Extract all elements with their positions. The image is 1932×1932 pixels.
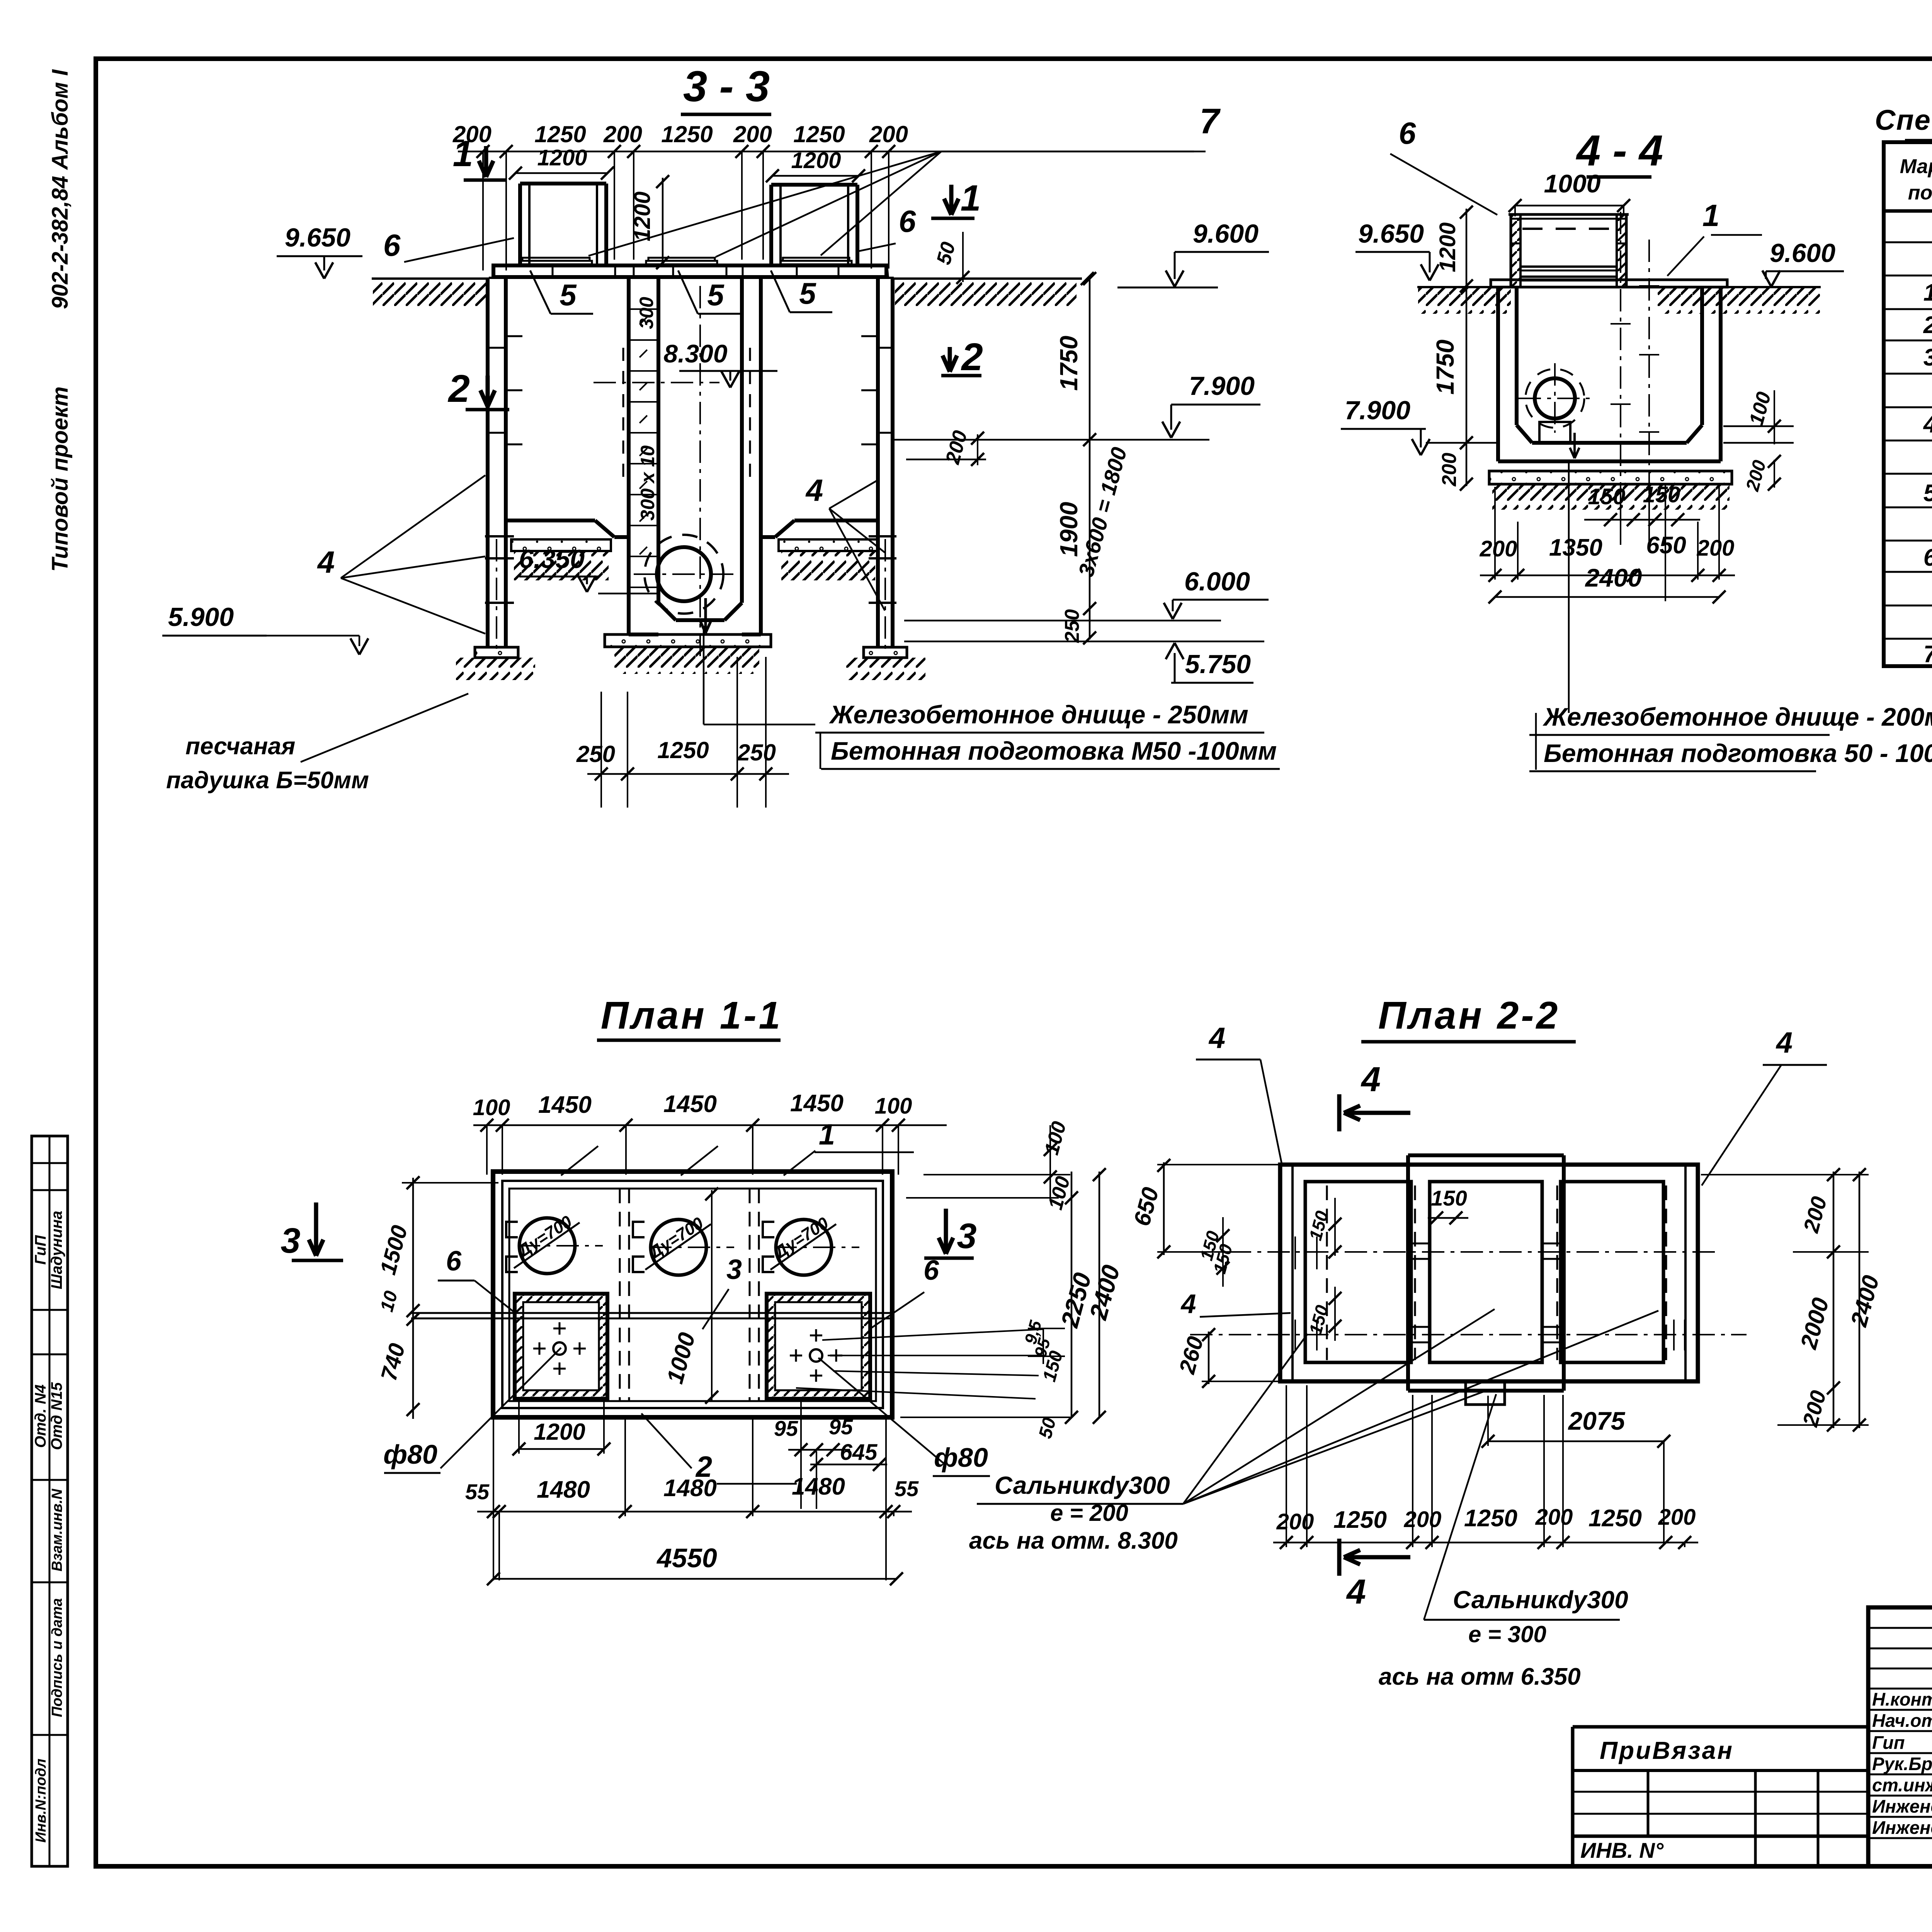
- vertical dim line 4-4 left: [1466, 209, 1468, 486]
- svg-text:1250: 1250: [657, 737, 709, 763]
- svg-text:5.750: 5.750: [1185, 650, 1251, 679]
- opening circle right Du700: [776, 1219, 832, 1275]
- svg-text:95: 95: [774, 1416, 798, 1440]
- svg-text:7: 7: [1923, 641, 1932, 668]
- title block outer: [1868, 1607, 1932, 1866]
- dim 200 bottom right 4-4: [1774, 460, 1775, 488]
- svg-text:4: 4: [317, 545, 335, 579]
- svg-text:200: 200: [1404, 1507, 1442, 1532]
- left chamber floor: [506, 519, 595, 522]
- svg-text:7.900: 7.900: [1189, 371, 1255, 401]
- svg-text:2075: 2075: [1568, 1406, 1626, 1435]
- section arrow 4 top: [1337, 1094, 1342, 1131]
- right manhole neck: [769, 185, 773, 264]
- left hatch box plan 1-1: [515, 1294, 607, 1399]
- svg-text:6: 6: [899, 204, 916, 238]
- svg-text:250: 250: [1061, 609, 1083, 643]
- svg-text:Железобетонное днище - 250мм: Железобетонное днище - 250мм: [829, 700, 1248, 729]
- right outer wall: [876, 278, 880, 536]
- plan 1-1 outer wall: [493, 1172, 892, 1417]
- svg-text:ИНВ. N°: ИНВ. N°: [1580, 1838, 1664, 1862]
- svg-text:e = 200: e = 200: [1050, 1500, 1128, 1526]
- plan 2-2 bottom stub: [1466, 1381, 1505, 1405]
- dim 1200 over right neck: [772, 175, 859, 177]
- svg-text:1200: 1200: [791, 148, 841, 173]
- svg-text:1480: 1480: [537, 1476, 590, 1503]
- plan 1-1 left dim chain 1500 10 740: [412, 1178, 414, 1419]
- svg-text:Типовой проект: Типовой проект: [48, 386, 73, 572]
- svg-text:Бетонная подготовка 50 - 100: Бетонная подготовка 50 - 100 мм: [1544, 739, 1932, 767]
- svg-text:План 1-1: План 1-1: [601, 994, 782, 1037]
- svg-text:200: 200: [1438, 453, 1461, 487]
- svg-text:Шадунина: Шадунина: [48, 1211, 65, 1289]
- svg-text:Взам.инв.N: Взам.инв.N: [49, 1488, 65, 1571]
- svg-text:55: 55: [465, 1480, 490, 1504]
- svg-text:300: 300: [636, 297, 657, 329]
- svg-text:поз.: поз.: [1908, 182, 1932, 204]
- tank cover slab 4-4: [1491, 280, 1727, 287]
- section mark 1 right: [949, 185, 954, 215]
- svg-text:5.900: 5.900: [168, 602, 234, 632]
- svg-text:Гип: Гип: [1872, 1732, 1905, 1753]
- floor step 4-4: [1539, 422, 1570, 443]
- tank floor 4-4: [1517, 425, 1532, 443]
- svg-text:ф80: ф80: [934, 1442, 988, 1473]
- svg-text:Инженер: Инженер: [1872, 1796, 1932, 1816]
- svg-text:300 x 10: 300 x 10: [637, 445, 658, 520]
- svg-text:ст.инж.: ст.инж.: [1872, 1775, 1932, 1795]
- svg-text:1750: 1750: [1431, 340, 1459, 395]
- svg-text:9.600: 9.600: [1193, 219, 1259, 248]
- plan 2-2 gland rects: [1411, 1243, 1430, 1259]
- shaft bottom with chamfers: [658, 603, 676, 620]
- svg-text:1: 1: [819, 1118, 835, 1151]
- svg-text:1450: 1450: [538, 1092, 592, 1118]
- plan 2-2 outer body: [1280, 1165, 1698, 1381]
- svg-text:1900: 1900: [1055, 502, 1083, 557]
- svg-text:1250: 1250: [793, 121, 845, 147]
- svg-text:4: 4: [1346, 1573, 1366, 1611]
- svg-text:ГиП: ГиП: [32, 1235, 49, 1265]
- svg-text:Отд N15: Отд N15: [48, 1382, 65, 1450]
- dim 200 below 7.900 line: [977, 434, 978, 465]
- vertical dim 1200 center: [662, 178, 664, 266]
- svg-text:1200: 1200: [630, 191, 655, 241]
- svg-text:1450: 1450: [663, 1091, 717, 1117]
- plan 2-2 right dim chain: [1701, 1174, 1869, 1175]
- svg-text:645: 645: [840, 1440, 878, 1465]
- svg-text:1450: 1450: [790, 1090, 844, 1117]
- pipe opening in shaft: [657, 547, 711, 601]
- svg-text:200: 200: [1697, 536, 1735, 561]
- left box gland circle: [553, 1342, 566, 1355]
- hidden ladder dashes in chambers: [622, 348, 624, 479]
- dim 2250 vertical: [1071, 1172, 1073, 1417]
- svg-text:1250: 1250: [534, 121, 586, 147]
- plan 2-2 middle block: [1408, 1153, 1564, 1157]
- svg-text:4: 4: [1923, 411, 1932, 438]
- svg-text:6: 6: [383, 228, 401, 262]
- svg-text:200: 200: [1276, 1509, 1314, 1534]
- right foundation column joints: [869, 535, 896, 537]
- section mark 2 right: [948, 347, 952, 372]
- left footing pad: [475, 647, 518, 658]
- svg-text:Железобетонное днище - 200мм: Железобетонное днище - 200мм: [1543, 702, 1932, 731]
- svg-text:Бетонная подготовка М50 -10: Бетонная подготовка М50 -100мм: [831, 736, 1277, 765]
- dim 2400 vertical: [1099, 1172, 1100, 1417]
- svg-text:100: 100: [473, 1095, 510, 1120]
- bottom dims 250 1250 250 under shaft: [587, 773, 789, 775]
- svg-text:План 2-2: План 2-2: [1378, 994, 1560, 1037]
- svg-text:9.650: 9.650: [1358, 219, 1424, 248]
- svg-text:1: 1: [961, 178, 981, 219]
- svg-text:4 - 4: 4 - 4: [1576, 126, 1663, 175]
- svg-text:5: 5: [560, 278, 577, 312]
- svg-text:ф80: ф80: [383, 1439, 437, 1469]
- svg-text:6: 6: [1399, 116, 1416, 150]
- svg-text:Подпись и дата: Подпись и дата: [49, 1598, 65, 1717]
- left outer wall: [486, 278, 490, 647]
- svg-text:3: 3: [281, 1221, 300, 1260]
- center support plates: [648, 258, 715, 261]
- svg-text:1200: 1200: [537, 145, 587, 170]
- svg-text:5: 5: [707, 278, 724, 312]
- svg-text:e = 300: e = 300: [1468, 1621, 1546, 1647]
- section 3-3 top dimension chain: [458, 151, 1206, 153]
- tank walls 4-4: [1496, 287, 1500, 461]
- dim 1200 over left neck: [515, 172, 607, 174]
- svg-text:6: 6: [1923, 544, 1932, 571]
- svg-text:7: 7: [1199, 102, 1221, 141]
- svg-text:8.300: 8.300: [663, 339, 727, 368]
- svg-text:4: 4: [1776, 1026, 1793, 1059]
- right chamber floor: [761, 535, 775, 539]
- right chamber underfloor slab: [779, 539, 878, 551]
- section arrow 4 bottom: [1337, 1539, 1342, 1576]
- svg-text:ась на отм 6.350: ась на отм 6.350: [1379, 1663, 1581, 1690]
- svg-text:55: 55: [895, 1476, 919, 1501]
- panel connector tabs plan 1-1: [506, 1222, 518, 1237]
- left chamber underfloor slab: [511, 539, 611, 551]
- plan 2-2 centerlines: [1229, 1251, 1719, 1253]
- plan 2-2 bottom dim row: [1273, 1542, 1698, 1544]
- plan 1-1 right dim chains: [923, 1174, 1070, 1175]
- svg-text:Сальникdу300: Сальникdу300: [995, 1471, 1170, 1499]
- svg-text:150: 150: [1588, 484, 1626, 509]
- ground line left of structure: [372, 277, 489, 280]
- leader from shaft bottom to notes: [703, 626, 705, 724]
- svg-text:ась на отм. 8.300: ась на отм. 8.300: [969, 1527, 1178, 1554]
- svg-text:95: 95: [829, 1415, 853, 1439]
- svg-text:Инженер: Инженер: [1872, 1817, 1932, 1838]
- svg-text:Н.контр.: Н.контр.: [1872, 1689, 1932, 1709]
- svg-text:1250: 1250: [661, 121, 713, 147]
- svg-text:250: 250: [737, 740, 776, 765]
- right elevation chain for 3-3: [1089, 279, 1091, 639]
- svg-text:Спецификация элементав нефте: Спецификация элементав нефтесборнага кал…: [1875, 104, 1932, 136]
- flow arrow in shaft: [704, 598, 707, 633]
- ground line right of structure: [894, 277, 1082, 280]
- left neck support plates: [522, 258, 590, 261]
- svg-text:6.000: 6.000: [1184, 567, 1250, 596]
- leader to bottom notes 4-4: [1568, 460, 1570, 713]
- plan 1-1 bottom dim row: [477, 1511, 912, 1513]
- svg-text:4: 4: [1208, 1022, 1225, 1054]
- left foundation column joints: [485, 535, 514, 537]
- plan 2-2 chamber boxes: [1305, 1182, 1411, 1362]
- svg-text:1480: 1480: [792, 1473, 845, 1500]
- svg-text:5: 5: [1923, 480, 1932, 507]
- plan 2-2 wall tick clusters: [1294, 1236, 1296, 1269]
- svg-text:1480: 1480: [663, 1475, 717, 1502]
- pipe opening 4-4: [1535, 378, 1575, 418]
- svg-text:1000: 1000: [1544, 169, 1601, 198]
- svg-text:2: 2: [961, 335, 983, 379]
- svg-text:7.900: 7.900: [1345, 396, 1410, 425]
- right footing pad: [864, 647, 907, 658]
- spec table grid: [1884, 142, 1932, 666]
- svg-text:902-2-382,84 Альбом I: 902-2-382,84 Альбом I: [48, 69, 73, 309]
- svg-text:2400: 2400: [1585, 563, 1642, 592]
- svg-text:250: 250: [576, 741, 615, 767]
- svg-text:150: 150: [1431, 1186, 1467, 1210]
- plan 1-1 top dims: [473, 1124, 947, 1126]
- svg-text:1: 1: [1923, 279, 1932, 306]
- svg-text:3: 3: [957, 1216, 976, 1256]
- svg-text:3: 3: [726, 1254, 742, 1285]
- svg-text:2: 2: [447, 367, 470, 410]
- right neck support plates: [783, 258, 849, 261]
- left manhole neck: [518, 184, 522, 264]
- svg-text:3 - 3: 3 - 3: [683, 62, 770, 111]
- bottom slab 4-4: [1489, 471, 1732, 484]
- svg-text:4: 4: [805, 473, 823, 507]
- right box gland circle: [810, 1349, 822, 1362]
- svg-text:4: 4: [1361, 1060, 1381, 1099]
- svg-text:200: 200: [1658, 1505, 1696, 1530]
- svg-text:200: 200: [1480, 536, 1517, 561]
- cover slab row: [493, 265, 886, 277]
- svg-text:5: 5: [799, 276, 816, 310]
- dim 50 at ground: [962, 232, 964, 282]
- opening circle left Du700: [519, 1218, 575, 1274]
- svg-text:4: 4: [1180, 1289, 1196, 1319]
- svg-text:1250: 1250: [1464, 1505, 1517, 1532]
- shaft rungs: [629, 308, 658, 310]
- svg-text:6.350: 6.350: [519, 544, 585, 574]
- svg-text:3: 3: [1923, 344, 1932, 371]
- svg-text:Марка: Марка: [1900, 155, 1932, 178]
- svg-text:9.600: 9.600: [1770, 238, 1835, 268]
- svg-text:9.650: 9.650: [285, 223, 350, 252]
- svg-text:Отд. N4: Отд. N4: [32, 1384, 49, 1448]
- section mark 3 right plan 1-1: [944, 1209, 948, 1254]
- plan 2-2 dashed lines: [1326, 1185, 1328, 1360]
- horizontal joint line through boxes: [411, 1312, 892, 1314]
- svg-text:Рук.Бр.: Рук.Бр.: [1872, 1753, 1932, 1774]
- svg-text:песчаная: песчаная: [185, 733, 295, 760]
- svg-text:200: 200: [869, 121, 908, 147]
- svg-text:1350: 1350: [1549, 534, 1602, 561]
- right hatch box plan 1-1: [767, 1294, 870, 1399]
- svg-text:1750: 1750: [1055, 336, 1083, 391]
- svg-text:2: 2: [1923, 312, 1932, 338]
- svg-text:200: 200: [733, 121, 772, 147]
- svg-text:200: 200: [1535, 1505, 1573, 1530]
- svg-text:Нач.отд.: Нач.отд.: [1872, 1710, 1932, 1731]
- svg-text:4550: 4550: [656, 1543, 717, 1573]
- svg-text:1200: 1200: [534, 1419, 585, 1445]
- privyazan box: [1571, 1727, 1575, 1866]
- svg-text:200: 200: [603, 121, 642, 147]
- svg-text:100: 100: [875, 1094, 912, 1119]
- svg-text:1250: 1250: [1333, 1507, 1387, 1533]
- svg-text:падушка Б=50мм: падушка Б=50мм: [166, 767, 369, 794]
- svg-text:6: 6: [446, 1246, 462, 1277]
- svg-text:Инв.N:подл: Инв.N:подл: [33, 1759, 49, 1842]
- collar structure: [1510, 214, 1512, 287]
- left strip form table: [32, 1136, 68, 1866]
- shaft centerline: [699, 286, 701, 657]
- svg-text:ПриВязан: ПриВязан: [1600, 1736, 1734, 1764]
- ground line left 4-4: [1417, 286, 1512, 288]
- svg-text:1: 1: [453, 133, 473, 174]
- shaft bottom slab: [605, 634, 771, 647]
- plan 1-1 hidden plate edges dashed: [509, 1189, 876, 1401]
- svg-text:1: 1: [1702, 198, 1720, 233]
- svg-text:Сальникdу300: Сальникdу300: [1453, 1586, 1628, 1614]
- svg-text:1250: 1250: [1588, 1505, 1642, 1532]
- opening circle middle Du700: [651, 1219, 706, 1275]
- ground line right 4-4: [1628, 286, 1821, 288]
- ground surface line at structure: [489, 277, 894, 279]
- central shaft walls: [627, 278, 631, 634]
- leaders from right box glands: [822, 1329, 1043, 1340]
- tank centerlines 4-4: [1620, 212, 1621, 502]
